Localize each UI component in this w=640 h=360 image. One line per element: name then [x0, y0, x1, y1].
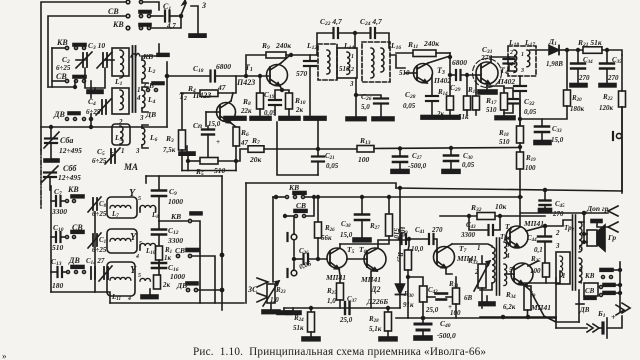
- resistor R14: [447, 96, 454, 110]
- connector arrow 2: [608, 222, 618, 232]
- resistor R4: [181, 92, 200, 94]
- node: [519, 146, 522, 149]
- ground: [599, 84, 616, 87]
- transistor T7: [434, 247, 455, 268]
- ground rod: [191, 6, 198, 33]
- variable capacitor C6b: [44, 171, 56, 173]
- svg-text:П402: П402: [497, 77, 515, 86]
- wire AGC return: [277, 122, 318, 175]
- ground: [149, 289, 151, 295]
- capacitor C12: [158, 221, 160, 228]
- switch CB out box: [584, 283, 598, 296]
- ground: [372, 117, 394, 121]
- speaker Gr: [587, 230, 597, 246]
- resistor R13: [357, 146, 374, 153]
- switch KB out: [600, 269, 613, 272]
- wire: [355, 95, 357, 118]
- wire: [48, 86, 75, 88]
- svg-text:Y: Y: [129, 188, 136, 199]
- svg-text:Д226Б: Д226Б: [366, 297, 388, 306]
- node: [577, 49, 580, 52]
- svg-text:22к: 22к: [240, 107, 252, 115]
- svg-text:270: 270: [552, 210, 564, 218]
- svg-text:СВ: СВ: [296, 201, 306, 210]
- ground: [442, 170, 460, 174]
- wire AGC bus: [314, 196, 522, 198]
- trimmer C2: [82, 53, 84, 67]
- svg-text:2к: 2к: [295, 106, 304, 114]
- transformer Tr2 core: [572, 215, 574, 290]
- svg-text:4: 4: [136, 94, 141, 102]
- transistor T5: [327, 248, 347, 268]
- svg-text:51к: 51к: [293, 324, 304, 332]
- wire: [90, 81, 92, 98]
- resistor R31: [455, 277, 457, 288]
- transistor T4: [476, 62, 498, 84]
- resistor R9: [246, 55, 266, 76]
- svg-text:2: 2: [118, 118, 123, 126]
- node: [449, 74, 452, 77]
- transformer Tr2 secondary box: [556, 252, 570, 284]
- headphone jack: [616, 133, 621, 138]
- svg-text:240к: 240к: [275, 41, 291, 50]
- transformer Tr1 secondary lower: [504, 264, 507, 286]
- jack socket 1: [291, 234, 297, 240]
- ground: [302, 337, 320, 341]
- ground: [189, 34, 206, 37]
- wire: [148, 44, 159, 56]
- wire speaker leads: [584, 233, 587, 235]
- transistor T9: [511, 263, 533, 285]
- switch S1a row2 contacts: [139, 11, 151, 14]
- coil L9 box: [107, 229, 137, 253]
- svg-text:15,0: 15,0: [551, 136, 564, 144]
- wire vertical: [449, 53, 451, 96]
- wire base stub: [205, 112, 207, 126]
- svg-text:100: 100: [450, 309, 461, 317]
- svg-text:91к: 91к: [403, 301, 414, 309]
- resistor R5: [188, 160, 200, 162]
- diode D2: [399, 188, 401, 283]
- svg-text:510: 510: [499, 138, 510, 146]
- ground: [94, 88, 96, 90]
- svg-text:МП41: МП41: [325, 273, 346, 282]
- ground: [304, 117, 326, 121]
- svg-text:4: 4: [135, 254, 139, 260]
- svg-text:12÷495: 12÷495: [59, 146, 82, 155]
- ground: [186, 146, 188, 152]
- node: [399, 187, 402, 190]
- wire trimmer common: [94, 212, 96, 292]
- switch CB mid: [152, 82, 164, 85]
- svg-text:·500,0: ·500,0: [437, 331, 456, 340]
- svg-text:СВ: СВ: [108, 7, 119, 16]
- capacitor C18: [209, 71, 211, 82]
- wire supply line: [396, 188, 622, 191]
- svg-text:6,2к: 6,2к: [503, 303, 516, 311]
- wire base bus: [167, 75, 209, 77]
- resistor R19: [517, 152, 524, 169]
- ground: [534, 141, 551, 145]
- switch DB osc: [67, 271, 70, 274]
- capacitor C13: [51, 271, 56, 273]
- wire speaker line: [521, 212, 608, 214]
- wire Tr2 top: [579, 213, 584, 222]
- capacitor C42: [427, 296, 435, 298]
- capacitor C20: [309, 55, 311, 60]
- wire top bus: [41, 2, 126, 150]
- trimmer C5: [110, 149, 112, 163]
- transformer Tr2 primary upper: [579, 222, 582, 252]
- IF can L12 L13 dashed box: [318, 44, 337, 80]
- capacitor C7: [51, 200, 55, 202]
- trimmer C4: [101, 100, 103, 114]
- bus wire y127: [41, 126, 167, 128]
- wire vertical feed: [166, 62, 168, 127]
- coil L15: [371, 48, 374, 78]
- ground: [486, 296, 488, 302]
- wire trimmer stems: [85, 68, 105, 88]
- svg-text:3300: 3300: [167, 236, 183, 245]
- potentiometer R33: [481, 256, 483, 264]
- svg-text:П423: П423: [192, 91, 211, 100]
- svg-text:б: б: [579, 244, 583, 252]
- capacitor C16: [158, 262, 160, 268]
- coil L17: [527, 50, 530, 67]
- svg-text:Y: Y: [130, 265, 137, 276]
- capacitor C32: [519, 76, 521, 85]
- pickup arrows ZS: [257, 278, 268, 287]
- capacitor C21: [317, 148, 320, 151]
- switch DB row: [68, 112, 80, 115]
- capacitor C37: [344, 302, 346, 314]
- IF can L15 dashed box: [362, 42, 390, 82]
- transformer Tr1 core: [496, 238, 498, 295]
- resistor R15: [466, 75, 468, 96]
- svg-text:Доп гр.: Доп гр.: [586, 204, 610, 213]
- svg-text:240к: 240к: [423, 39, 439, 48]
- resistor R20: [566, 50, 568, 90]
- svg-text:+: +: [611, 313, 616, 322]
- wire rail drop: [555, 317, 557, 328]
- coil L18: [514, 50, 517, 72]
- svg-text:Сба: Сба: [60, 136, 73, 145]
- antenna arrow: [181, 3, 186, 15]
- diode D1: [549, 46, 559, 55]
- svg-text:1: 1: [121, 147, 125, 155]
- coil L4: [142, 90, 145, 108]
- svg-text:СВ: СВ: [56, 72, 67, 81]
- capacitor C44: [526, 226, 545, 231]
- svg-text:З: З: [201, 1, 206, 10]
- wire AGC drop: [399, 238, 402, 241]
- node: [90, 126, 93, 129]
- svg-text:100: 100: [525, 164, 536, 172]
- resistor R35: [543, 263, 550, 277]
- ground: [478, 90, 497, 94]
- resistor R26: [317, 196, 320, 199]
- transformer Tr1 secondary upper: [504, 242, 507, 258]
- svg-text:6800: 6800: [452, 58, 467, 67]
- trimmer C3: [102, 53, 104, 67]
- svg-text:1000: 1000: [168, 197, 183, 206]
- svg-text:1: 1: [137, 86, 141, 94]
- switch CB osc: [66, 236, 69, 239]
- svg-text:КВ: КВ: [170, 212, 181, 221]
- node: [606, 49, 609, 52]
- trimmer C11: [92, 234, 94, 246]
- contact bar: [591, 220, 602, 223]
- svg-text:570: 570: [296, 69, 308, 78]
- resistor R8: [259, 76, 261, 93]
- coil L11 box: [107, 262, 135, 296]
- wire: [354, 33, 356, 48]
- svg-text:1: 1: [521, 52, 524, 58]
- resistor R30: [407, 276, 410, 279]
- svg-text:3: 3: [135, 147, 140, 155]
- node CB terminal: [126, 0, 130, 4]
- switch S1a row3 contacts: [139, 24, 151, 27]
- capacitor C25: [355, 78, 357, 95]
- svg-text:Сп: Сп: [193, 121, 202, 130]
- ground: [224, 117, 246, 121]
- resistor R10: [282, 90, 289, 93]
- node: [235, 160, 238, 163]
- coil L11b: [140, 278, 150, 281]
- svg-text:3: 3: [349, 80, 354, 88]
- svg-text:б: б: [579, 266, 583, 274]
- capacitor C27: [399, 147, 402, 150]
- svg-text:1000: 1000: [170, 272, 185, 281]
- resistor R32: [440, 215, 545, 217]
- capacitor C43: [469, 216, 487, 230]
- node: [355, 94, 358, 97]
- wire osc feed: [50, 186, 52, 292]
- transistor T6: [364, 248, 386, 270]
- capacitor bypass: [504, 88, 513, 98]
- node: [281, 89, 284, 92]
- svg-text:R21 51к: R21 51к: [577, 38, 602, 48]
- switch DB out: [584, 297, 596, 300]
- svg-text:4: 4: [505, 252, 510, 260]
- svg-text:15,0: 15,0: [340, 231, 353, 239]
- resistor R28: [387, 307, 390, 310]
- svg-text:5: 5: [138, 196, 141, 202]
- svg-text:ДВ: ДВ: [145, 110, 156, 119]
- ground: [391, 170, 409, 174]
- svg-text:1: 1: [477, 244, 481, 252]
- wire: [74, 81, 76, 87]
- resistor R34: [526, 285, 528, 286]
- svg-text:КВ: КВ: [142, 52, 153, 61]
- wire T5 collector to R27: [340, 236, 389, 244]
- svg-text:СВ: СВ: [175, 246, 185, 255]
- transformer Tr2 primary lower: [579, 258, 582, 282]
- ground pair: [283, 308, 285, 311]
- svg-text:4,7: 4,7: [166, 22, 176, 30]
- resistor R21: [567, 49, 583, 51]
- resistor R27: [388, 196, 391, 199]
- coil L16: [381, 48, 384, 72]
- IF can L14 box: [337, 48, 357, 78]
- svg-text:»: »: [2, 351, 7, 360]
- svg-text:270: 270: [431, 226, 443, 234]
- svg-text:25,0: 25,0: [425, 306, 439, 314]
- variable capacitor C6a: [50, 127, 52, 137]
- transistor T2 emitter wire: [231, 123, 236, 127]
- wire bottom: [182, 170, 236, 172]
- wire supply right corner: [621, 107, 623, 191]
- svg-text:1,0: 1,0: [270, 296, 279, 304]
- wire C22 bus: [317, 33, 332, 55]
- svg-text:0,1: 0,1: [534, 246, 543, 254]
- svg-text:Y: Y: [130, 232, 137, 243]
- capacitor Cp electrolytic: [202, 128, 214, 130]
- node: [354, 32, 357, 35]
- svg-text:5: 5: [110, 151, 114, 159]
- resistor R22: [619, 91, 626, 107]
- svg-text:1,98В: 1,98В: [546, 60, 563, 68]
- svg-text:3: 3: [139, 114, 144, 122]
- svg-text:6÷25: 6÷25: [92, 157, 107, 165]
- switch KB af: [293, 192, 306, 195]
- capacitor C33: [541, 119, 543, 125]
- resistor R16: [475, 75, 477, 96]
- svg-text:3300: 3300: [51, 207, 67, 216]
- resistor R30: [408, 238, 411, 241]
- svg-text:П423: П423: [236, 78, 255, 87]
- capacitor C45: [544, 189, 547, 192]
- svg-text:0,05: 0,05: [326, 162, 339, 170]
- switch KB osc: [66, 200, 69, 203]
- resistor R1: [156, 246, 163, 260]
- svg-text:МА: МА: [123, 162, 138, 172]
- capacitor C9: [158, 176, 160, 189]
- ground: [495, 116, 515, 120]
- svg-text:2к: 2к: [162, 281, 171, 289]
- trimmer C15: [103, 267, 105, 279]
- ground: [379, 337, 397, 341]
- wire T7 collector to Tr1: [452, 244, 492, 246]
- wire collector: [491, 56, 516, 58]
- svg-text:10,0: 10,0: [411, 245, 424, 253]
- connector arrow 1: [608, 206, 618, 216]
- transistor T8: [506, 226, 528, 248]
- svg-text:6÷25: 6÷25: [86, 108, 101, 116]
- svg-text:12÷495: 12÷495: [58, 173, 81, 182]
- capacitor C19: [275, 90, 282, 99]
- wire AF box top: [246, 183, 396, 188]
- capacitor C26: [356, 95, 381, 97]
- coil L10: [140, 243, 156, 246]
- svg-text:3: 3: [555, 242, 560, 250]
- ferrite tap mark: [131, 54, 140, 58]
- svg-text:270: 270: [578, 74, 590, 82]
- ground: [353, 238, 371, 242]
- wire: [187, 156, 189, 171]
- svg-text:ЗС: ЗС: [247, 285, 258, 294]
- capacitor C40: [422, 318, 424, 322]
- transformer Tr1 primary: [492, 247, 495, 283]
- ferrite core: [132, 46, 134, 112]
- ground: [250, 117, 271, 121]
- svg-text:3: 3: [520, 68, 524, 74]
- svg-text:2: 2: [350, 67, 354, 73]
- svg-text:180: 180: [52, 281, 64, 290]
- capacitor C22: [332, 28, 334, 38]
- wire R5 to bus: [236, 149, 248, 161]
- jack socket 2: [291, 270, 297, 276]
- svg-text:510: 510: [339, 65, 350, 73]
- coil L1: [112, 48, 129, 76]
- transistor T3: [414, 64, 433, 83]
- svg-text:15,0: 15,0: [208, 120, 221, 128]
- svg-text:56к: 56к: [321, 234, 332, 242]
- wire T6 emitter: [371, 271, 377, 308]
- coil L14: [347, 52, 350, 74]
- wire switch bus: [615, 284, 620, 286]
- svg-text:6800: 6800: [216, 62, 231, 71]
- svg-text:1: 1: [351, 54, 354, 60]
- switch bar tap: [157, 54, 169, 57]
- capacitor C35: [606, 50, 608, 62]
- svg-text:0,05: 0,05: [462, 161, 475, 169]
- node: [220, 288, 223, 291]
- ground: [442, 116, 460, 120]
- coil L2: [142, 60, 145, 79]
- wire: [51, 48, 53, 87]
- capacitor C39: [400, 234, 402, 244]
- wire: [216, 75, 271, 77]
- switch CB row: [52, 80, 65, 82]
- node: [519, 118, 522, 121]
- svg-text:0,05: 0,05: [524, 108, 537, 116]
- capacitor C38: [361, 196, 364, 199]
- transistor T4 emitter: [487, 84, 490, 89]
- resistor R6: [233, 127, 240, 146]
- node: [259, 75, 262, 78]
- wire T9 emitter to rail: [523, 284, 556, 322]
- svg-text:100: 100: [530, 267, 541, 275]
- node: [50, 126, 53, 129]
- node: [166, 75, 169, 78]
- switch CB af: [294, 210, 307, 213]
- wire bus vertical: [221, 176, 223, 310]
- ground: [421, 116, 443, 120]
- wire T7 emitter: [446, 268, 452, 274]
- wire dash-dot trimmer gang line: [40, 150, 42, 208]
- resistor R2: [154, 275, 161, 289]
- switch S1a row1: [139, 0, 142, 3]
- node: [449, 56, 452, 59]
- svg-text:120к: 120к: [599, 104, 614, 112]
- trimmer C8: [92, 198, 94, 210]
- svg-text:Сбб: Сбб: [63, 164, 77, 173]
- resistor R25: [339, 269, 340, 283]
- coil L12: [327, 50, 330, 74]
- svg-text:Гр: Гр: [607, 233, 616, 242]
- svg-text:КВ: КВ: [288, 183, 299, 192]
- wire L16 to T3 base: [390, 55, 405, 68]
- resistor R3: [181, 93, 183, 130]
- wire: [285, 215, 294, 217]
- svg-text:25,0: 25,0: [339, 316, 353, 324]
- wire audio bottom: [284, 307, 400, 309]
- coil L5 (MA rod): [112, 124, 130, 145]
- transistor T2: [217, 103, 236, 122]
- capacitor C41: [428, 234, 430, 244]
- capacitor C1: [164, 11, 166, 22]
